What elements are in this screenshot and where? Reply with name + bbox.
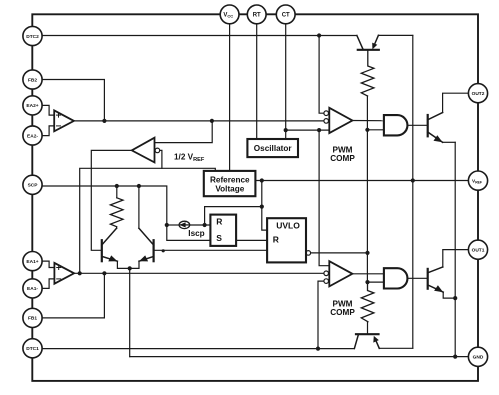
- wire Q4 collector to OUT1: [443, 250, 469, 267]
- wire DTC1 to PWM2 bottom bubble: [318, 281, 324, 349]
- pin labels right: [472, 91, 485, 361]
- pin labels left: [26, 34, 39, 352]
- wire SCP line: [42, 186, 210, 240]
- pin SCP: [23, 175, 42, 194]
- wire GND line: [130, 356, 469, 358]
- AND gate 2: [384, 268, 408, 288]
- pin labels top: [223, 13, 290, 19]
- pin OUT2: [468, 84, 487, 103]
- wire resistor R1 top lead: [116, 186, 118, 198]
- label Reference Voltage: [210, 175, 250, 193]
- AND gate 1: [384, 115, 408, 135]
- svg-text:EA2+: EA2+: [26, 103, 38, 109]
- wire AND1 output to Q3 base: [407, 124, 427, 126]
- wire DTC2 to PWM1 top bubble: [319, 36, 324, 114]
- wire CT to oscillator: [285, 24, 287, 139]
- pin VREF: [468, 171, 487, 190]
- pin GND: [468, 347, 487, 366]
- pin RT: [247, 5, 266, 24]
- wire CT to PWM1 lower input: [286, 129, 330, 131]
- svg-text:COMP: COMP: [330, 308, 355, 317]
- pin DTC1: [23, 339, 42, 358]
- pin EA2-: [23, 126, 42, 145]
- block Reference Voltage: [204, 171, 256, 196]
- transistor Q4 output NPN: [428, 267, 444, 292]
- wire Q3 collector to OUT2: [443, 93, 469, 112]
- block UVLO: [267, 218, 311, 262]
- svg-text:Oscillator: Oscillator: [254, 144, 293, 153]
- pin FB2: [23, 70, 42, 89]
- svg-text:Iscp: Iscp: [188, 229, 204, 238]
- pin EA1+: [23, 252, 42, 271]
- wire AND2 output to Q4 base: [407, 277, 427, 279]
- wire inverter output to diff pair base: [91, 150, 132, 250]
- svg-text:DTC2: DTC2: [26, 34, 39, 40]
- wire emitter bus: [117, 261, 139, 268]
- inverter half-vref buffer: [132, 138, 160, 163]
- svg-text:UVLO: UVLO: [276, 220, 300, 230]
- wire FB2 to EA2 output: [42, 80, 104, 121]
- wire FB1 to EA1 output: [42, 273, 104, 318]
- wire resistor R4 bottom lead: [367, 322, 369, 335]
- pin EA2+: [23, 96, 42, 115]
- pin Vcc: [220, 5, 239, 24]
- wire diff pair base to UVLO: [154, 249, 268, 251]
- wire Q6 emitter bottom run: [379, 347, 413, 349]
- wire vref tap to latch node: [205, 207, 262, 225]
- svg-text:FB1: FB1: [28, 316, 37, 322]
- wire half-vref rail: [80, 168, 216, 273]
- wire Iscp to latch R input: [190, 224, 211, 226]
- svg-text:R: R: [273, 235, 279, 245]
- pin CT: [276, 5, 295, 24]
- wire vref branch down to UVLO: [262, 181, 267, 231]
- svg-text:COMP: COMP: [330, 154, 355, 163]
- wire RT to oscillator: [256, 24, 258, 139]
- svg-text:OUT2: OUT2: [472, 91, 485, 97]
- wire resistor R1 bottom lead to Q1 collector: [116, 227, 118, 229]
- wire inverter bubble to half-vref rail: [160, 150, 162, 168]
- svg-text:S: S: [216, 233, 222, 243]
- wire EA2 out to inverter top input: [155, 121, 213, 143]
- wire EA2- input: [42, 126, 54, 136]
- wire DTC1 line: [42, 348, 354, 350]
- pin OUT1: [468, 240, 487, 259]
- svg-text:GND: GND: [473, 355, 484, 361]
- wire EA2+ input: [42, 105, 54, 115]
- wire EA1+ input: [42, 261, 54, 267]
- wire Q2 collector drop: [138, 186, 140, 228]
- wire EA1 output line: [74, 272, 324, 274]
- wire DTC2 line: [42, 35, 357, 37]
- svg-text:FB2: FB2: [28, 77, 37, 83]
- resistor R1: [110, 198, 123, 227]
- wire SCP to Iscp source: [167, 224, 179, 226]
- svg-text:OUT1: OUT1: [472, 248, 485, 254]
- svg-text:RT: RT: [253, 13, 261, 19]
- wire tail current to GND rail: [129, 268, 131, 356]
- wire Q4 emitter down: [443, 292, 455, 298]
- comparator PWM COMP 1: [324, 108, 352, 133]
- svg-text:EA2-: EA2-: [27, 133, 38, 139]
- transistor Q3 output NPN: [428, 113, 443, 143]
- op-amp EA1 error amplifier: [54, 263, 74, 284]
- wire PWM2 output to AND2: [352, 273, 384, 275]
- current source Iscp: [179, 221, 190, 228]
- svg-text:SCP: SCP: [28, 183, 39, 189]
- comparator PWM COMP 2: [324, 261, 352, 286]
- svg-text:EA1+: EA1+: [26, 259, 38, 265]
- wire DTC emitter rail: [412, 36, 414, 349]
- svg-text:DTC1: DTC1: [26, 346, 39, 352]
- wire VREF line: [255, 180, 468, 182]
- op-amp EA2 error amplifier: [54, 110, 74, 131]
- wire Vcc to reference: [229, 24, 231, 171]
- svg-text:VCC: VCC: [223, 13, 233, 19]
- block SR latch: [210, 215, 236, 246]
- pin EA1-: [23, 279, 42, 298]
- svg-text:CT: CT: [282, 13, 290, 19]
- wire Q5 emitter top run: [378, 34, 412, 36]
- wire EA2 output line: [74, 120, 324, 122]
- svg-text:R: R: [216, 216, 222, 226]
- resistor R4: [361, 282, 374, 322]
- wire Q3 emitter to gnd rail: [443, 141, 456, 143]
- wire AND2 lower input: [368, 281, 384, 283]
- label PWM COMP 2: [330, 300, 355, 318]
- svg-text:EA1-: EA1-: [27, 286, 38, 292]
- transistor Q5 top PNP: [357, 35, 379, 50]
- resistor R2: [361, 50, 374, 96]
- svg-text:Reference: Reference: [210, 175, 250, 184]
- label PWM COMP 1: [330, 146, 355, 164]
- pin FB1: [23, 308, 42, 327]
- transistor Q1 diff pair left NPN: [102, 228, 118, 261]
- pin DTC2: [23, 26, 42, 45]
- wire UVLO output line: [311, 252, 368, 254]
- wire PWM1 output to AND1: [352, 120, 384, 122]
- wire CT to PWM2 top input: [319, 130, 329, 266]
- transistor Q6 bottom PNP: [354, 334, 379, 348]
- wire UVLO gate rail: [366, 96, 368, 282]
- wire EA1- input: [42, 279, 54, 289]
- svg-text:Voltage: Voltage: [215, 185, 244, 194]
- transistor Q2 diff pair right NPN: [139, 228, 154, 261]
- wire AND1 lower input: [367, 129, 384, 131]
- wire latch S to UVLO R: [236, 239, 267, 241]
- block Oscillator: [247, 139, 298, 157]
- wire emitters ground rail: [454, 142, 456, 356]
